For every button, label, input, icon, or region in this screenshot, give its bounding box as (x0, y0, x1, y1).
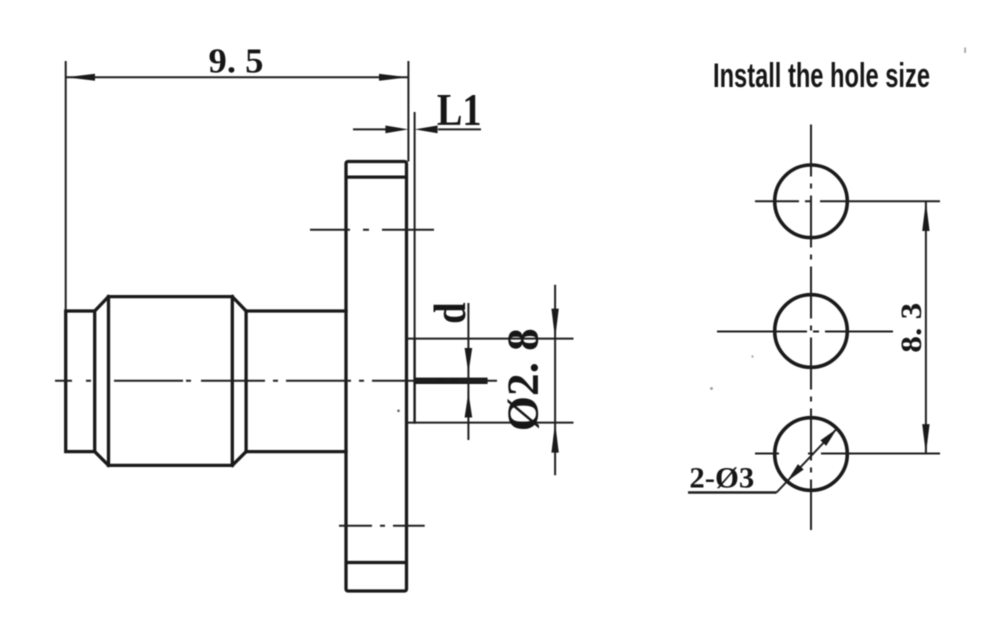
svg-text:L1: L1 (437, 85, 482, 135)
svg-text:Ø2. 8: Ø2. 8 (499, 328, 548, 431)
svg-text:d: d (424, 302, 475, 324)
svg-text:Install the hole size: Install the hole size (713, 57, 930, 95)
svg-text:2-Ø3: 2-Ø3 (689, 462, 754, 495)
svg-text:9. 5: 9. 5 (209, 42, 264, 81)
svg-text:8. 3: 8. 3 (895, 303, 928, 353)
